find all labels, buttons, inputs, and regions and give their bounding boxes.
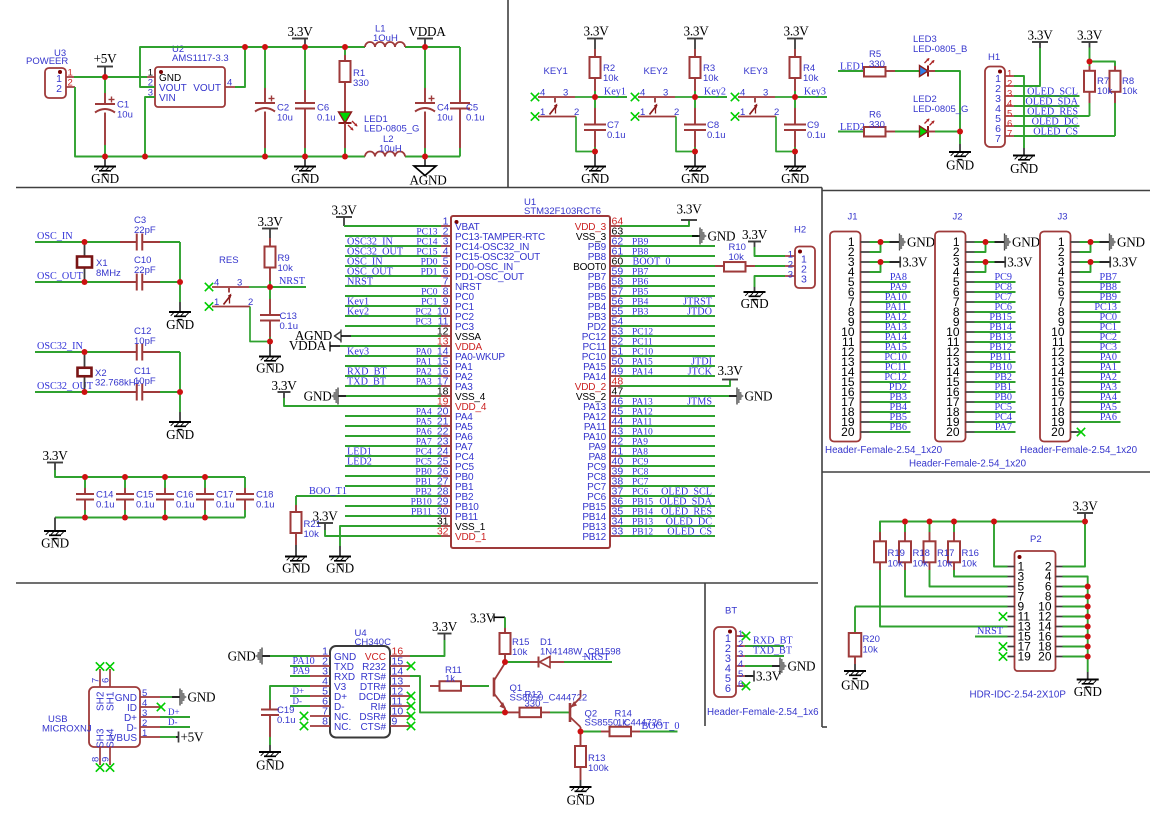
svg-text:PB11: PB11	[411, 508, 432, 518]
resistor R8	[1114, 66, 1116, 71]
svg-text:GND: GND	[1010, 161, 1038, 176]
net label PA15 (J1 pin12)	[870, 351, 911, 353]
wire H1 pin1 to GND	[1014, 76, 1024, 148]
net label OSC_OUT	[35, 281, 120, 283]
svg-text:PC1: PC1	[421, 298, 438, 308]
svg-text:10u: 10u	[117, 110, 133, 121]
pin 21 PA5 (U1 left)	[441, 425, 451, 427]
net label PB5 (J1 pin19)	[870, 421, 911, 423]
capacitor C8	[694, 97, 696, 108]
svg-text:20: 20	[841, 425, 855, 439]
diode D1 1N4148W_C81598	[505, 661, 530, 663]
svg-text:NRST: NRST	[977, 626, 1004, 637]
svg-text:GND: GND	[326, 561, 354, 576]
net label PA11 (J1 pin8)	[870, 311, 911, 313]
transistor Q1 SS8050_C444722	[493, 678, 496, 697]
svg-text:GND: GND	[1012, 234, 1040, 249]
power flag 3.3V (U1 VDD_4)	[278, 391, 291, 393]
pin 10 PC2 (U1 left)	[441, 315, 451, 317]
svg-text:TXD_BT: TXD_BT	[347, 377, 387, 388]
net label PB14 (J2 pin10)	[975, 331, 1016, 333]
power flag 3.3V (P2)	[1077, 512, 1093, 514]
wire R19 to P2 pin13	[880, 570, 1008, 627]
svg-text:10k: 10k	[937, 559, 953, 570]
svg-text:GND: GND	[741, 296, 769, 311]
net label PB8 (J3 pin6)	[1080, 291, 1121, 293]
net label PB15 (J2 pin9)	[975, 321, 1016, 323]
svg-text:3.3V: 3.3V	[470, 611, 496, 626]
svg-text:3.3V: 3.3V	[1072, 499, 1098, 514]
wire R8 to OLED_CS	[1114, 103, 1116, 136]
svg-text:4: 4	[640, 88, 645, 99]
net label PA4 (J3 pin17)	[1080, 401, 1121, 403]
svg-text:PA3: PA3	[416, 378, 432, 388]
svg-text:10k: 10k	[803, 73, 819, 84]
junction J1 pin3/pin4	[870, 262, 881, 272]
svg-text:0.1u: 0.1u	[607, 130, 626, 141]
svg-text:Header-Female-2.54_1x6: Header-Female-2.54_1x6	[707, 707, 819, 718]
svg-text:0.1u: 0.1u	[317, 113, 336, 124]
svg-text:3.3V: 3.3V	[742, 227, 768, 242]
junction J2 pin1/pin2	[975, 242, 986, 252]
svg-text:3.3V: 3.3V	[756, 668, 782, 683]
svg-text:GND: GND	[304, 388, 332, 403]
svg-text:1: 1	[214, 297, 219, 308]
svg-text:GND: GND	[567, 793, 595, 808]
svg-text:OLED_CS: OLED_CS	[1033, 127, 1078, 138]
svg-text:PC4: PC4	[415, 448, 432, 458]
svg-text:2: 2	[248, 297, 253, 308]
svg-text:PC15: PC15	[416, 248, 437, 258]
pin 60 BOOT0 (U1 right)	[610, 265, 620, 267]
svg-text:OLED_CS: OLED_CS	[667, 527, 712, 538]
net label PA0 (J3 pin13)	[1080, 361, 1121, 363]
pin 23 PA7 (U1 left)	[441, 445, 451, 447]
pin 59 PB7 (U1 right)	[610, 275, 620, 277]
pin 8 PC0 (U1 left)	[441, 295, 451, 297]
svg-text:10k: 10k	[1122, 86, 1138, 97]
wire rail to P2 pin1	[994, 522, 1008, 567]
pin 18 VSS_4 (U1 left)	[441, 395, 451, 397]
power flag 3.3V (H1 pin2)	[1032, 41, 1048, 43]
capacitor C14	[84, 477, 86, 488]
net label BOO_T1	[296, 495, 441, 497]
svg-text:10k: 10k	[703, 73, 719, 84]
svg-text:PB1: PB1	[415, 478, 432, 488]
svg-text:PB15: PB15	[632, 498, 653, 508]
svg-text:3.3V: 3.3V	[717, 363, 743, 378]
capacitor C1	[104, 77, 106, 93]
pin 37 PC6 (U1 right)	[610, 495, 620, 497]
pin 5 PD0-OSC_IN (U1 left)	[441, 265, 451, 267]
pin 56 PB4 (U1 right)	[610, 305, 620, 307]
power flag 3.3V (U1 VDD_2)	[620, 380, 730, 387]
svg-text:RES: RES	[219, 255, 239, 266]
svg-text:10uH: 10uH	[379, 144, 402, 155]
svg-text:AMS1117-3.3: AMS1117-3.3	[172, 53, 229, 64]
ground GND (R13)	[580, 780, 582, 787]
net label PB12 (J2 pin12)	[975, 351, 1016, 353]
svg-text:3: 3	[663, 88, 668, 99]
net label OLED_DC (H1 pin6)	[1014, 125, 1080, 127]
svg-text:PB6: PB6	[632, 278, 649, 288]
svg-text:PC3: PC3	[415, 318, 432, 328]
net label LED2	[838, 131, 864, 133]
svg-text:D+: D+	[168, 707, 180, 717]
svg-text:Header-Female-2.54_1x20: Header-Female-2.54_1x20	[909, 459, 1027, 470]
svg-text:PB7: PB7	[632, 268, 649, 278]
pin 48 VDD_2 (U1 right)	[610, 385, 620, 387]
svg-text:1OuH: 1OuH	[373, 33, 398, 44]
capacitor C12	[120, 351, 137, 353]
svg-text:NRST: NRST	[347, 277, 374, 288]
pin 64 VDD_3 (U1 right)	[610, 225, 620, 227]
net label PB3 (J1 pin17)	[870, 401, 911, 403]
pin 1 VBAT (U1 left)	[441, 225, 451, 227]
svg-text:PC2: PC2	[415, 308, 432, 318]
pin 2 TXD (U4 left)	[310, 665, 330, 667]
ground GND (KEY2)	[694, 152, 696, 167]
pin 12 VSSA (U1 left)	[441, 335, 451, 337]
net label PA14 (J1 pin11)	[870, 341, 911, 343]
svg-text:9: 9	[392, 716, 398, 728]
svg-text:3: 3	[763, 88, 768, 99]
svg-text:PB12: PB12	[582, 532, 606, 543]
svg-text:PC9: PC9	[632, 458, 649, 468]
wire P2 right GND rail	[1063, 577, 1088, 673]
svg-text:PB10: PB10	[411, 498, 432, 508]
pin 9 CTS# (U4 right)	[390, 725, 410, 727]
pin 7 NC. (U4 left)	[310, 715, 330, 717]
pin 11 RI# (U4 right)	[390, 705, 410, 707]
wire U2 pin4 riser	[235, 47, 245, 87]
wire 3.3V to R8	[1090, 62, 1116, 67]
svg-text:3.3V: 3.3V	[271, 378, 297, 393]
pin 11 PC3 (U1 left)	[441, 325, 451, 327]
wire J3 pin1 to GND flag	[1080, 241, 1100, 243]
svg-text:PB3: PB3	[632, 308, 649, 318]
svg-text:PA6: PA6	[1100, 412, 1117, 423]
capacitor C3	[120, 241, 137, 243]
svg-text:JTDO: JTDO	[687, 307, 712, 318]
net label D- (U4)	[290, 705, 310, 707]
svg-text:330: 330	[869, 120, 885, 131]
net label PA3 (J3 pin16)	[1080, 391, 1121, 393]
power flag 3.3V (U1 VDD_1)	[317, 522, 333, 524]
wire R20 to P2 pin9	[855, 606, 1008, 608]
ground flag GND (USB pin5)	[160, 696, 172, 698]
capacitor C18	[244, 477, 246, 488]
capacitor C10	[120, 281, 137, 283]
ground GND (X1)	[179, 302, 181, 312]
svg-text:PB12: PB12	[632, 528, 653, 538]
svg-text:LED2: LED2	[347, 457, 372, 468]
no-connect J3 pin20	[1071, 431, 1077, 433]
resistor R9	[269, 238, 271, 247]
power flag 3.3V (decoupling)	[47, 462, 63, 464]
net label PC2 (J3 pin11)	[1080, 341, 1121, 343]
wire P2 pin16 to GND rail	[1063, 636, 1088, 638]
svg-text:PC11: PC11	[632, 338, 653, 348]
IC U1 STM32F103RCT6 body	[451, 216, 610, 548]
net label PB7 (J3 pin5)	[1080, 281, 1121, 283]
svg-text:100k: 100k	[588, 763, 609, 774]
resistor R19	[879, 522, 881, 533]
power flag 3.3V (KEY3)	[787, 38, 803, 40]
net label OSC32_OUT	[35, 391, 120, 393]
net label PA13 (J1 pin10)	[870, 331, 911, 333]
junction J3 pin3/pin4	[1080, 262, 1091, 272]
svg-text:7: 7	[1007, 128, 1012, 139]
pin 43 PA10 (U1 right)	[610, 435, 620, 437]
wire +5V net	[74, 76, 147, 78]
net label PB10 (J2 pin14)	[975, 371, 1016, 373]
svg-text:PB5: PB5	[632, 288, 649, 298]
net label PC7 (J2 pin7)	[975, 301, 1016, 303]
svg-text:4: 4	[540, 88, 545, 99]
ground GND (C1)	[104, 157, 106, 167]
power flag 3.3V (J2 pin3)	[975, 261, 995, 263]
ground flag GND (U1 VSS_2)	[620, 395, 729, 397]
net label PC12 (J1 pin15)	[870, 381, 911, 383]
svg-text:10pF: 10pF	[134, 376, 156, 387]
wire P2 pin14 to GND rail	[1063, 626, 1088, 628]
wire decoupling GND rail	[55, 517, 245, 519]
power flag VDDA	[417, 38, 433, 40]
svg-text:10k: 10k	[1097, 86, 1113, 97]
power flag +5V	[97, 66, 113, 68]
wire BOOT0 to R10	[620, 265, 715, 267]
resistor R10	[715, 265, 724, 267]
svg-text:0.1u: 0.1u	[136, 500, 155, 511]
svg-text:10k: 10k	[512, 647, 528, 658]
svg-text:20: 20	[1051, 425, 1065, 439]
net label PB1 (J2 pin16)	[975, 391, 1016, 393]
pin 15 R232 (U4 right)	[390, 665, 410, 667]
svg-text:3.3V: 3.3V	[42, 448, 68, 463]
no-connect U4 right pins	[407, 662, 415, 670]
pin 3 RXD (U4 left)	[310, 675, 330, 677]
net label PC10 (J1 pin13)	[870, 361, 911, 363]
net label PA9 (J1 pin6)	[870, 291, 911, 293]
IC U4 CH340C body	[330, 646, 390, 738]
transistor Q2 SS8550_C444726	[569, 703, 572, 722]
pin 20 PA4 (U1 left)	[441, 415, 451, 417]
wire U4 RTS# to Q2 base	[410, 676, 505, 712]
svg-text:0.1u: 0.1u	[807, 130, 826, 141]
net label PD2 (J1 pin16)	[870, 391, 911, 393]
svg-text:8: 8	[322, 716, 328, 728]
capacitor C19	[269, 700, 271, 710]
svg-text:7: 7	[995, 133, 1001, 145]
power flag 3.3V (R7 R8)	[1082, 41, 1098, 43]
pin 14 PA0-WKUP (U1 left)	[441, 355, 451, 357]
pin 62 PB9 (U1 right)	[610, 245, 620, 247]
svg-text:R19: R19	[888, 548, 905, 559]
svg-text:VDDA: VDDA	[289, 338, 327, 353]
pin 15 PA1 (U1 left)	[441, 365, 451, 367]
pin 51 PC10 (U1 right)	[610, 355, 620, 357]
capacitor C2	[264, 47, 266, 88]
svg-text:PB14: PB14	[632, 508, 653, 518]
resistor R14	[581, 731, 602, 733]
svg-text:3.3V: 3.3V	[1077, 28, 1103, 43]
svg-text:H2: H2	[794, 225, 806, 236]
power flag AGND (U1 VSSA)	[335, 332, 342, 341]
wire P2 pin8 to GND rail	[1063, 596, 1088, 598]
regulator U2 AMS1117-3.3	[155, 67, 225, 107]
resistor R11	[430, 685, 440, 687]
power flag 3.3V (J3 pin3)	[1080, 261, 1100, 263]
resistor R21	[295, 496, 297, 505]
svg-text:GND: GND	[581, 171, 609, 186]
connector H2	[795, 247, 815, 289]
net label NRST (RES)	[270, 286, 306, 288]
svg-text:1: 1	[142, 728, 147, 739]
svg-text:Key2: Key2	[704, 87, 726, 98]
svg-text:PA9: PA9	[632, 438, 648, 448]
power flag +5V (USB VBUS)	[160, 736, 176, 738]
svg-text:KEY2: KEY2	[644, 66, 668, 77]
svg-text:6: 6	[738, 679, 743, 690]
net label PA12 (J1 pin9)	[870, 321, 911, 323]
svg-text:2: 2	[774, 107, 779, 118]
svg-text:BOO_T1: BOO_T1	[309, 486, 347, 497]
svg-text:GND: GND	[1117, 234, 1145, 249]
pin 17 PA3 (U1 left)	[441, 385, 451, 387]
inductor L2	[365, 152, 405, 157]
svg-text:D-: D-	[168, 717, 178, 727]
ground GND (C6)	[304, 157, 306, 167]
pin 5 D+ (U4 left)	[310, 695, 330, 697]
pin 8 NC. (U4 left)	[310, 725, 330, 727]
ground GND (decoupling)	[54, 518, 56, 532]
svg-text:3.3V: 3.3V	[683, 24, 709, 39]
ground GND (U1 VSS_1)	[339, 546, 341, 557]
pin 42 PA9 (U1 right)	[610, 445, 620, 447]
net label D+ (U4)	[290, 695, 310, 697]
svg-text:GND: GND	[166, 317, 194, 332]
resistor R13	[580, 732, 582, 747]
svg-text:R18: R18	[913, 548, 930, 559]
svg-text:22pF: 22pF	[134, 225, 156, 236]
svg-text:2: 2	[68, 78, 73, 89]
net label PC4 (J2 pin19)	[975, 421, 1016, 423]
pin 61 PB8 (U1 right)	[610, 255, 620, 257]
net label PC1 (J3 pin10)	[1080, 331, 1121, 333]
wire 3.3V top rail	[245, 46, 365, 48]
junction J2 pin3/pin4	[975, 262, 986, 272]
capacitor C4	[424, 47, 426, 88]
junction LED GND node	[959, 132, 961, 145]
svg-text:3: 3	[237, 278, 242, 289]
net label PB0 (J2 pin17)	[975, 401, 1016, 403]
no-connect P2 pins 11 17 19	[999, 612, 1007, 620]
net label PA2 (J3 pin15)	[1080, 381, 1121, 383]
svg-text:Key2: Key2	[347, 307, 369, 318]
svg-text:3.3V: 3.3V	[331, 203, 357, 218]
power flag VDDA (U1 pin13)	[329, 342, 331, 352]
svg-text:PC10: PC10	[632, 348, 653, 358]
svg-text:GND: GND	[228, 648, 256, 663]
pin 4 V3 (U4 left)	[310, 685, 330, 687]
svg-text:P2: P2	[1030, 534, 1042, 545]
pin 13 VDDA (U1 left)	[441, 345, 451, 347]
net label PA1 (J3 pin14)	[1080, 371, 1121, 373]
svg-text:+5V: +5V	[181, 729, 205, 744]
svg-text:+5V: +5V	[94, 51, 118, 66]
svg-text:D+: D+	[293, 686, 305, 696]
svg-text:GND: GND	[256, 758, 284, 773]
pin 26 PB0 (U1 left)	[441, 475, 451, 477]
net label PA10 (U4 TXD)	[290, 665, 310, 667]
svg-text:0.1u: 0.1u	[277, 715, 296, 726]
svg-text:HDR-IDC-2.54-2X10P: HDR-IDC-2.54-2X10P	[970, 690, 1067, 701]
svg-text:BT: BT	[725, 606, 737, 617]
svg-text:VOUT: VOUT	[193, 83, 221, 94]
pin 46 PA13 (U1 right)	[610, 405, 620, 407]
svg-text:PA4: PA4	[416, 408, 432, 418]
svg-text:OSC_IN: OSC_IN	[37, 231, 73, 242]
pin 2 PC13-TAMPER-RTC (U1 left)	[441, 235, 451, 237]
resistor R4	[794, 49, 796, 57]
svg-text:GND: GND	[681, 171, 709, 186]
net label OLED_CS (H1 pin7)	[1014, 135, 1115, 137]
svg-text:330: 330	[353, 78, 369, 89]
connector BT Header-Female-2.54_1x6	[714, 627, 736, 697]
svg-text:PC7: PC7	[632, 478, 649, 488]
svg-text:PC5: PC5	[415, 458, 432, 468]
svg-text:0.1u: 0.1u	[176, 500, 195, 511]
svg-text:20: 20	[946, 425, 960, 439]
svg-text:Key3: Key3	[347, 347, 369, 358]
wire R7 to OLED_RES	[1089, 103, 1091, 116]
connector USB MICROXNJ	[89, 687, 140, 747]
svg-text:PA15: PA15	[632, 358, 653, 368]
svg-text:TXD_BT: TXD_BT	[753, 646, 793, 657]
wire J1 pin1 to GND flag	[870, 241, 890, 243]
no-connect BT pin1	[742, 632, 750, 640]
junction J3 pin1/pin2	[1080, 242, 1091, 252]
LED LED2 LED-0805_G	[920, 126, 929, 137]
pin 33 PB12 (U1 right)	[610, 535, 620, 537]
svg-text:6: 6	[725, 683, 731, 695]
pin 47 VSS_2 (U1 right)	[610, 395, 620, 397]
resistor R15	[504, 617, 506, 628]
resistor R1	[344, 47, 346, 55]
pin 54 PD2 (U1 right)	[610, 325, 620, 327]
svg-text:1: 1	[640, 107, 645, 118]
connector J1 Header-Female-2.54_1x20	[830, 232, 861, 442]
svg-text:VDDA: VDDA	[408, 24, 446, 39]
wire U3 pin2 to GND rail	[75, 87, 105, 157]
svg-text:3.3V: 3.3V	[432, 619, 458, 634]
wire X2 caps to GND	[179, 352, 181, 412]
wire X1 caps to GND	[179, 242, 181, 302]
pin 40 PC9 (U1 right)	[610, 465, 620, 467]
net label PC0 (J3 pin9)	[1080, 321, 1121, 323]
capacitor C6	[304, 47, 306, 90]
svg-text:R20: R20	[863, 634, 880, 645]
svg-text:LED2: LED2	[840, 122, 865, 133]
net label PC9 (J2 pin5)	[975, 281, 1016, 283]
no-connect BT pin6	[742, 682, 750, 690]
svg-text:1k: 1k	[445, 674, 455, 685]
connector U3 POWEER	[45, 68, 66, 98]
svg-text:3: 3	[801, 274, 807, 286]
svg-text:JTCK: JTCK	[688, 367, 713, 378]
pin 16 VCC (U4 right)	[390, 655, 410, 657]
